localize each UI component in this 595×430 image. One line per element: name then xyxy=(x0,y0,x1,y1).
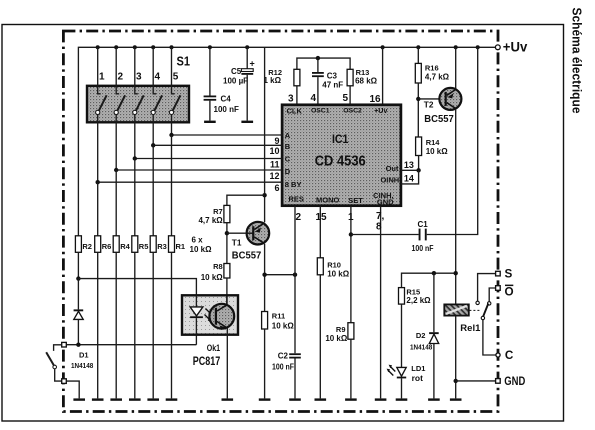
svg-text:1 kΩ: 1 kΩ xyxy=(263,76,281,85)
svg-text:4,7 kΩ: 4,7 kΩ xyxy=(425,72,450,81)
wire pin15 MONO column xyxy=(319,206,321,258)
svg-text:10 kΩ: 10 kΩ xyxy=(327,270,350,279)
terminal O-bar xyxy=(496,285,514,299)
capacitor C4 xyxy=(204,47,239,120)
resistor R9 xyxy=(325,323,354,399)
svg-text:T2: T2 xyxy=(424,99,434,109)
svg-text:D2: D2 xyxy=(416,331,426,340)
resistor R15 xyxy=(399,287,432,367)
node RES junction xyxy=(293,273,297,277)
svg-text:4,7 kΩ: 4,7 kΩ xyxy=(198,216,223,225)
wire to R7 xyxy=(227,195,265,205)
svg-text:OSC2: OSC2 xyxy=(343,108,362,115)
svg-text:10: 10 xyxy=(269,146,279,156)
dash-dot schematic border xyxy=(63,31,498,412)
switch S1-4 xyxy=(151,47,162,145)
ground (D2) xyxy=(428,398,440,400)
terminal C xyxy=(496,349,514,362)
wire Ok1 emitter to ground xyxy=(226,328,228,398)
svg-text:Schéma électrique: Schéma électrique xyxy=(570,8,585,114)
contact O (open circle) xyxy=(488,302,491,305)
LED LD1 xyxy=(387,364,426,398)
node coil junction xyxy=(454,271,458,275)
svg-text:B: B xyxy=(285,142,291,151)
wire trigger line to opto LED cathode xyxy=(66,335,196,345)
optocoupler Ok1 PC817 body xyxy=(182,295,238,368)
resistor R7 xyxy=(198,205,229,263)
svg-text:5: 5 xyxy=(173,72,179,83)
ground (trigger/D1) xyxy=(73,398,85,400)
wire opto LED anode line xyxy=(78,279,196,296)
svg-text:9: 9 xyxy=(274,136,279,146)
svg-text:100 nF: 100 nF xyxy=(214,105,239,114)
svg-text:IC1: IC1 xyxy=(332,134,349,146)
resistor R14 xyxy=(416,137,449,170)
svg-text:6: 6 xyxy=(274,183,279,193)
svg-text:R14: R14 xyxy=(426,138,441,147)
svg-text:15: 15 xyxy=(316,212,328,223)
svg-text:R16: R16 xyxy=(425,64,439,73)
ground (R4) xyxy=(110,398,122,400)
svg-text:Out: Out xyxy=(386,164,399,173)
node B junction xyxy=(151,143,155,147)
svg-text:CLK: CLK xyxy=(287,107,303,116)
svg-text:R10: R10 xyxy=(327,261,341,270)
node D junction xyxy=(114,168,118,172)
svg-text:13: 13 xyxy=(404,160,414,170)
node junction dots on +Uv rail xyxy=(96,45,480,49)
svg-text:1N4148: 1N4148 xyxy=(410,343,432,352)
switch S1-1 xyxy=(96,47,107,182)
ground (R9) xyxy=(345,398,357,400)
svg-text:3: 3 xyxy=(288,94,294,105)
svg-text:D1: D1 xyxy=(79,351,89,360)
svg-text:R6: R6 xyxy=(102,242,112,251)
svg-text:O: O xyxy=(505,286,514,299)
node T1 emitter junction xyxy=(262,193,266,197)
svg-text:47 nF: 47 nF xyxy=(322,81,343,90)
wire relay branch (coil top rail) xyxy=(402,273,456,287)
svg-text:+: + xyxy=(250,58,255,68)
ground (R10) xyxy=(315,398,327,400)
svg-text:OSC1: OSC1 xyxy=(311,108,330,115)
svg-text:R2: R2 xyxy=(82,242,92,251)
ground (R5) xyxy=(129,398,141,400)
node osc junction xyxy=(316,56,320,60)
svg-text:11: 11 xyxy=(270,159,280,169)
wire to GND terminal xyxy=(456,380,496,382)
node A junction xyxy=(169,133,173,137)
resistor R12 xyxy=(263,68,299,105)
svg-text:PC817: PC817 xyxy=(193,356,221,368)
wire bus D to pin 12 xyxy=(116,169,282,171)
svg-text:100 nF: 100 nF xyxy=(412,244,434,253)
svg-text:100 nF: 100 nF xyxy=(272,363,294,372)
svg-text:C2: C2 xyxy=(278,352,289,361)
resistor R10 xyxy=(317,258,349,399)
svg-text:16: 16 xyxy=(370,94,382,105)
resistor R1 xyxy=(169,236,186,253)
capacitor C1 xyxy=(351,47,478,253)
ground (R3) xyxy=(147,398,159,400)
wire bus C to pin 11 xyxy=(135,158,282,160)
wire pivot to C terminal xyxy=(483,320,496,355)
resistor R2 xyxy=(75,236,92,253)
switch S1-2 xyxy=(114,47,125,170)
resistor R3 xyxy=(150,236,167,253)
svg-text:10 kΩ: 10 kΩ xyxy=(201,273,224,282)
node 8BY junction xyxy=(96,180,100,184)
svg-text:8: 8 xyxy=(376,222,382,233)
ground (Ok1) xyxy=(222,398,234,400)
wire RES link xyxy=(265,274,295,276)
node C junction xyxy=(133,156,137,160)
svg-text:7,: 7, xyxy=(376,211,385,222)
svg-text:2: 2 xyxy=(296,212,302,223)
svg-text:10 kΩ: 10 kΩ xyxy=(272,321,295,330)
node D1/trigger junction xyxy=(76,343,80,347)
svg-text:4: 4 xyxy=(155,72,161,83)
svg-text:D: D xyxy=(285,167,291,176)
svg-text:R3: R3 xyxy=(157,242,167,251)
wire trigger return to ground xyxy=(66,381,79,398)
svg-text:100 µF: 100 µF xyxy=(223,77,248,86)
DIP switch S1 body xyxy=(87,54,190,123)
wire R2 to D1 xyxy=(77,252,79,278)
node SET/C1 junction xyxy=(349,232,353,236)
diode D1 xyxy=(71,279,93,370)
contact pivot (open circle) xyxy=(481,316,484,319)
svg-text:1: 1 xyxy=(99,72,105,83)
wire bus A to pin 9 xyxy=(172,134,283,136)
svg-text:10 kΩ: 10 kΩ xyxy=(325,334,348,343)
svg-text:8 BY: 8 BY xyxy=(285,180,302,189)
resistor R4 xyxy=(113,236,130,253)
ground (R6) xyxy=(92,398,104,400)
node Out junction xyxy=(416,168,420,172)
svg-text:GND: GND xyxy=(377,198,394,207)
svg-text:OINH: OINH xyxy=(380,176,399,185)
resistor R13 xyxy=(347,68,378,105)
terminal GND xyxy=(496,375,526,388)
svg-text:5: 5 xyxy=(343,93,349,104)
svg-text:LD1: LD1 xyxy=(411,364,425,373)
wire +Uv top rail xyxy=(78,47,495,236)
wire T1 collector down xyxy=(264,244,266,312)
relay Rel1 coil xyxy=(444,304,481,334)
LED inside Ok1 xyxy=(190,295,212,334)
terminal S xyxy=(496,268,513,281)
resistor R5 xyxy=(132,236,149,253)
resistor R11 xyxy=(262,312,295,399)
svg-text:R9: R9 xyxy=(336,325,346,334)
capacitor C5 (electrolytic) xyxy=(223,47,255,120)
ground (C5) xyxy=(241,121,253,123)
wire O contact xyxy=(489,288,495,302)
svg-text:C: C xyxy=(285,155,291,164)
svg-text:2: 2 xyxy=(118,72,124,83)
resistor R8 xyxy=(201,262,230,296)
wire T2 emitter xyxy=(455,47,457,88)
svg-text:C: C xyxy=(505,349,514,362)
wire pin2 RES column xyxy=(294,206,296,354)
capacitor C2 xyxy=(272,352,301,399)
svg-text:+Uv: +Uv xyxy=(503,39,528,54)
svg-text:4: 4 xyxy=(311,93,317,104)
ground (LD1) xyxy=(396,398,408,400)
node T2 base junction xyxy=(416,97,420,101)
svg-text:14: 14 xyxy=(404,174,414,184)
wire resistor columns down to ground xyxy=(98,252,172,398)
svg-text:S1: S1 xyxy=(177,54,191,69)
relay switch blade xyxy=(483,304,489,318)
node T1 base junction xyxy=(225,231,229,235)
node GND junction xyxy=(454,379,458,383)
op IC1 CD4536 body xyxy=(282,105,401,207)
svg-text:6 x: 6 x xyxy=(192,236,204,245)
svg-text:MONO: MONO xyxy=(316,196,339,205)
diode D2 xyxy=(410,273,439,398)
wire pins 7,8 GND column xyxy=(380,206,382,399)
wire oscillator top xyxy=(297,58,350,72)
ground (R1) xyxy=(166,398,178,400)
wire pin1 SET column xyxy=(350,206,352,323)
svg-text:CD 4536: CD 4536 xyxy=(315,153,366,170)
svg-text:R13: R13 xyxy=(356,68,370,77)
wire pin14 OINH xyxy=(401,170,419,184)
wire T1 base xyxy=(227,232,247,234)
ground (C4) xyxy=(204,121,216,123)
wire T2 base xyxy=(418,98,439,100)
relay actuation dashed link xyxy=(469,309,481,311)
terminal trigger bottom (border square) xyxy=(62,379,67,384)
svg-text:10 kΩ: 10 kΩ xyxy=(190,245,213,254)
svg-text:R7: R7 xyxy=(213,207,223,216)
svg-text:C1: C1 xyxy=(418,220,429,229)
svg-text:10 kΩ: 10 kΩ xyxy=(426,147,449,156)
terminal +Uv xyxy=(495,39,527,54)
svg-text:C3: C3 xyxy=(327,71,338,80)
svg-text:BC557: BC557 xyxy=(232,249,262,261)
ground (C2) xyxy=(289,398,301,400)
transistor T1 BC557 xyxy=(232,222,269,261)
node T1 collector junction xyxy=(262,273,266,277)
ground (R11) xyxy=(259,398,271,400)
wire T2 collector to relay xyxy=(455,110,457,305)
svg-text:1N4148: 1N4148 xyxy=(71,361,93,370)
svg-text:Rel1: Rel1 xyxy=(460,323,481,334)
switch S1-3 xyxy=(133,47,144,158)
wire switch columns down to resistors xyxy=(98,135,172,236)
svg-text:A: A xyxy=(285,131,291,140)
node R2/opto junction xyxy=(76,276,80,280)
svg-text:rot: rot xyxy=(412,373,424,383)
svg-text:GND: GND xyxy=(504,375,525,388)
ground (pins 7,8) xyxy=(375,398,387,400)
resistor R6 xyxy=(95,236,112,253)
wire relay coil to ground xyxy=(455,316,457,399)
svg-text:68 kΩ: 68 kΩ xyxy=(355,77,378,86)
svg-text:S: S xyxy=(505,268,513,281)
svg-text:1: 1 xyxy=(348,212,354,223)
terminal trigger top (border square) xyxy=(62,342,67,347)
svg-text:C4: C4 xyxy=(221,95,232,104)
ground (relay) xyxy=(450,398,462,400)
svg-text:T1: T1 xyxy=(232,237,242,247)
wire pin13 Out xyxy=(401,169,419,171)
svg-text:R4: R4 xyxy=(120,242,130,251)
svg-text:12: 12 xyxy=(269,171,279,181)
wire bus 8BY to pin 6 xyxy=(98,181,282,183)
transistor T2 BC557 xyxy=(424,88,462,125)
wire bus B to pin 10 xyxy=(153,144,282,146)
svg-text:R8: R8 xyxy=(213,262,223,271)
svg-text:BC557: BC557 xyxy=(424,113,454,125)
node D2 junction xyxy=(432,271,436,275)
svg-text:RES: RES xyxy=(289,195,304,204)
switch S1-5 xyxy=(169,47,180,135)
svg-text:2,2 kΩ: 2,2 kΩ xyxy=(406,296,431,305)
svg-text:R1: R1 xyxy=(176,242,186,251)
contact S (open circle) xyxy=(476,301,479,304)
wire pin16 to rail xyxy=(382,47,384,105)
svg-text:SET: SET xyxy=(348,196,363,205)
push-button switch (external) xyxy=(46,345,62,381)
phototransistor inside Ok1 xyxy=(209,295,234,330)
svg-text:R11: R11 xyxy=(272,312,285,321)
capacitor C3 xyxy=(312,71,343,104)
resistor R16 xyxy=(415,47,449,137)
svg-text:3: 3 xyxy=(136,72,142,83)
wire +Uv feed to T1 emitter xyxy=(264,47,266,222)
svg-text:R5: R5 xyxy=(139,242,149,251)
svg-text:C5: C5 xyxy=(231,67,242,76)
svg-text:Ok1: Ok1 xyxy=(207,343,220,353)
wire S contact xyxy=(478,274,496,302)
svg-text:+Uv: +Uv xyxy=(374,108,387,115)
